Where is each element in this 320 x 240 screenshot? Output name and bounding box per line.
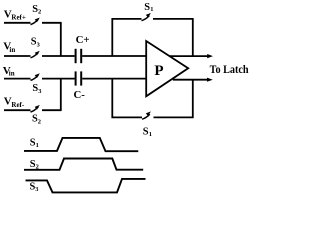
svg-text:in: in (9, 70, 15, 78)
svg-text:C+: C+ (76, 34, 90, 46)
svg-text:C-: C- (74, 89, 86, 101)
svg-text:2: 2 (36, 163, 39, 170)
svg-text:Ref+: Ref+ (11, 14, 25, 22)
svg-text:in: in (9, 46, 15, 54)
svg-text:Ref-: Ref- (11, 101, 24, 109)
svg-text:To Latch: To Latch (210, 62, 249, 76)
svg-text:1: 1 (36, 142, 39, 149)
svg-text:1: 1 (150, 6, 153, 13)
svg-text:3: 3 (38, 88, 41, 95)
svg-text:3: 3 (35, 186, 38, 193)
svg-text:P: P (154, 63, 163, 79)
svg-text:1: 1 (149, 131, 152, 138)
svg-text:2: 2 (38, 119, 41, 126)
svg-text:3: 3 (37, 41, 40, 48)
svg-text:2: 2 (38, 9, 41, 16)
